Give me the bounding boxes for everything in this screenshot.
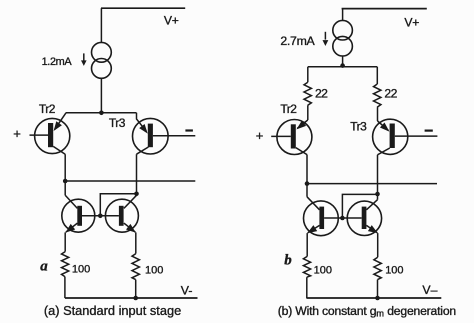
svg-text:V+: V+ [404,16,419,30]
svg-text:2.7mA: 2.7mA [280,34,315,48]
wire: Tr3 collector to mirror node (a) [136,154,138,194]
wire: tail bus to R4 (b) [376,67,378,84]
wire: output node to mirror Q1 collector (a) [64,181,66,195]
transistor Tr3 (b) [373,119,438,155]
wire: Tr2 collector to output node (a) [64,154,66,181]
wire: V+ rail (b) [342,8,427,10]
current direction arrow (b) [323,32,329,46]
label Tr2 (a) [39,102,56,116]
current direction arrow (a) [81,53,87,66]
junction: tail node (b) [340,63,345,68]
label V- (b) [422,283,437,297]
wire: output bus (b) [307,183,437,185]
value label 100 (R6) [385,265,403,277]
wire: output bus (a) [65,180,195,182]
value label 100 (R2) [145,265,163,277]
svg-text:V–: V– [422,283,437,297]
wire: R2 to V- rail (a) [135,280,137,298]
current mirror transistor Q2 (a right) [100,195,138,232]
resistor R6 100 (b) [374,257,381,279]
junction: output node (b) [305,181,310,186]
wire: Tr2 collector to output node (b) [306,155,308,184]
junction: mirror diode node (a) [134,192,139,197]
wire: Q2 emitter to R2 (a) [135,232,137,253]
transistor Tr2 (a) [30,113,70,154]
wire: R3 to Tr2 emitter (b) [307,105,309,120]
resistor R5 100 (b) [303,256,310,277]
label b [284,252,292,268]
label V+ (a) [164,14,179,28]
label a [40,259,48,275]
resistor R4 22 (b) [374,84,381,107]
svg-text:100: 100 [314,264,332,276]
current source I1 (a) [92,42,112,78]
svg-text:100: 100 [72,264,90,276]
svg-text:V-: V- [181,284,193,298]
svg-text:(b) With constant gm degenerat: (b) With constant gm degeneration [278,304,456,319]
wire: tail bus to R3 (b) [307,67,309,82]
V- rail (b) [306,297,441,299]
label Tr2 (b) [280,102,297,116]
wire: output node to mirror Q3 collector (b) [306,184,308,197]
wire: current source to emitter node (a) [100,78,102,113]
svg-text:a: a [40,259,48,275]
wire: Q4 emitter to R6 (b) [377,233,379,257]
label V+ (b) [404,16,419,30]
- input (a) [185,129,193,131]
svg-text:100: 100 [145,265,163,277]
wire: V+ rail (a) [101,7,185,9]
value label 100 (R5) [314,264,332,276]
V- rail (a) [65,297,198,299]
svg-text:22: 22 [315,86,328,100]
svg-text:Tr2: Tr2 [39,102,56,116]
resistor R2 100 (a) [132,254,139,280]
label Tr3 (a) [109,116,126,130]
value label 22 (R3) [315,86,328,100]
wire: current source to node (b) [342,56,344,67]
current mirror transistor Q1 (a left) [62,195,101,232]
svg-text:b: b [284,252,292,268]
wire: mirror base to diode node (b) [342,194,377,218]
wire: mirror base to diode node (a) [100,194,136,216]
current mirror transistor Q3 (b left) [304,197,343,236]
wire: Q1 emitter to R1 (a) [64,232,66,251]
wire: V+ rail to current source (b) [342,9,344,21]
current mirror transistor Q4 (b right) [342,200,381,236]
junction: mirror base node (b) [340,216,345,221]
wire: tail bus (b) [308,66,378,68]
junction: output node (a) [63,179,68,184]
svg-text:Tr2: Tr2 [280,102,297,116]
- input (b) [425,130,433,132]
svg-text:(a) Standard input stage: (a) Standard input stage [44,303,181,318]
value label 22 (R4) [384,87,397,101]
wire: Tr3 collector to mirror node (b) [377,155,379,194]
current source I2 (b) [333,20,353,56]
value label 2.7mA [280,34,315,48]
wire: R4 to Tr3 emitter (b) [377,107,379,121]
junction: mirror diode node (b) [375,192,380,197]
wire: V+ rail to current source (a) [100,8,102,42]
+ input (a) [13,126,21,141]
svg-text:+: + [256,128,264,143]
junction: emitter node (a) [99,111,104,116]
wire: diode node to Q4 collector (b) [377,194,379,200]
transistor Tr2 (b) [271,120,312,155]
caption (b) [278,304,456,319]
junction: R6 at V- rail (b) [375,296,380,301]
value label 1.2mA [42,56,73,68]
resistor R1 100 (a) [62,252,69,277]
svg-text:V+: V+ [164,14,179,28]
svg-text:Tr3: Tr3 [350,119,367,133]
resistor R3 22 (b) [304,82,311,105]
wire: R1 to V- rail (a) [64,277,66,298]
svg-text:1.2mA: 1.2mA [42,56,73,68]
svg-text:22: 22 [384,87,397,101]
wire: R6 to V- rail (b) [377,280,379,298]
svg-text:+: + [13,126,21,141]
svg-text:100: 100 [385,265,403,277]
junction: R2 at V- rail (a) [133,296,138,301]
svg-text:Tr3: Tr3 [109,116,126,130]
wire: R5 to V- rail (b) [306,277,308,298]
caption (a) [44,303,181,318]
label V- (a) [181,284,193,298]
junction: mirror base node (a) [98,214,103,219]
label Tr3 (b) [350,119,367,133]
transistor Tr3 (a) [133,113,196,154]
value label 100 (R1) [72,264,90,276]
wire: emitter bus (a) [66,112,137,114]
wire: Q3 emitter to R5 (b) [306,233,308,256]
+ input (b) [256,128,264,143]
